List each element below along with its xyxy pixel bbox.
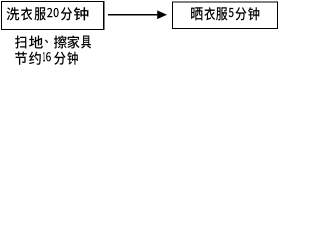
box: dry clothes (晒衣服5分钟) bbox=[173, 2, 278, 28]
text: 扫地、擦家具 (sweep floor, wipe furniture) bbox=[15, 35, 91, 48]
background bbox=[0, 0, 280, 67]
text: 洗衣服20分钟 (wash clothes 20 min) bbox=[7, 7, 89, 20]
text: 晒衣服5分钟 (dry clothes 5 min) bbox=[191, 7, 259, 20]
arrow head bbox=[157, 10, 167, 19]
box: wash clothes (洗衣服20分钟) bbox=[2, 2, 104, 30]
arrow shaft from wash box to dry box bbox=[108, 14, 158, 16]
text: 节约16分钟 (saves 16 minutes) bbox=[15, 52, 78, 65]
